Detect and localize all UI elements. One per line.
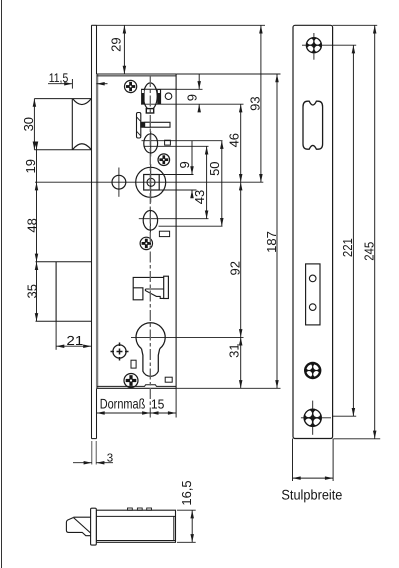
svg-text:30: 30 <box>21 117 36 131</box>
svg-text:221: 221 <box>340 238 355 257</box>
svg-text:Dornmaß: Dornmaß <box>100 396 146 412</box>
svg-text:3: 3 <box>107 453 113 465</box>
svg-text:43: 43 <box>192 190 207 204</box>
svg-text:48: 48 <box>25 218 40 232</box>
svg-text:19: 19 <box>23 159 38 173</box>
svg-text:11,5: 11,5 <box>49 71 69 85</box>
svg-text:Stulpbreite: Stulpbreite <box>281 486 342 502</box>
svg-text:50: 50 <box>207 161 222 175</box>
svg-text:93: 93 <box>248 96 263 110</box>
svg-text:9: 9 <box>177 161 192 168</box>
svg-text:35: 35 <box>25 284 40 298</box>
svg-text:29: 29 <box>109 37 124 51</box>
svg-text:15: 15 <box>151 397 165 412</box>
svg-text:31: 31 <box>227 343 242 357</box>
svg-text:21: 21 <box>66 333 83 348</box>
svg-text:46: 46 <box>227 133 242 147</box>
svg-text:92: 92 <box>228 261 243 275</box>
svg-text:245: 245 <box>362 242 377 261</box>
svg-text:9: 9 <box>185 94 200 101</box>
svg-text:187: 187 <box>264 231 279 253</box>
svg-text:16,5: 16,5 <box>179 480 194 505</box>
